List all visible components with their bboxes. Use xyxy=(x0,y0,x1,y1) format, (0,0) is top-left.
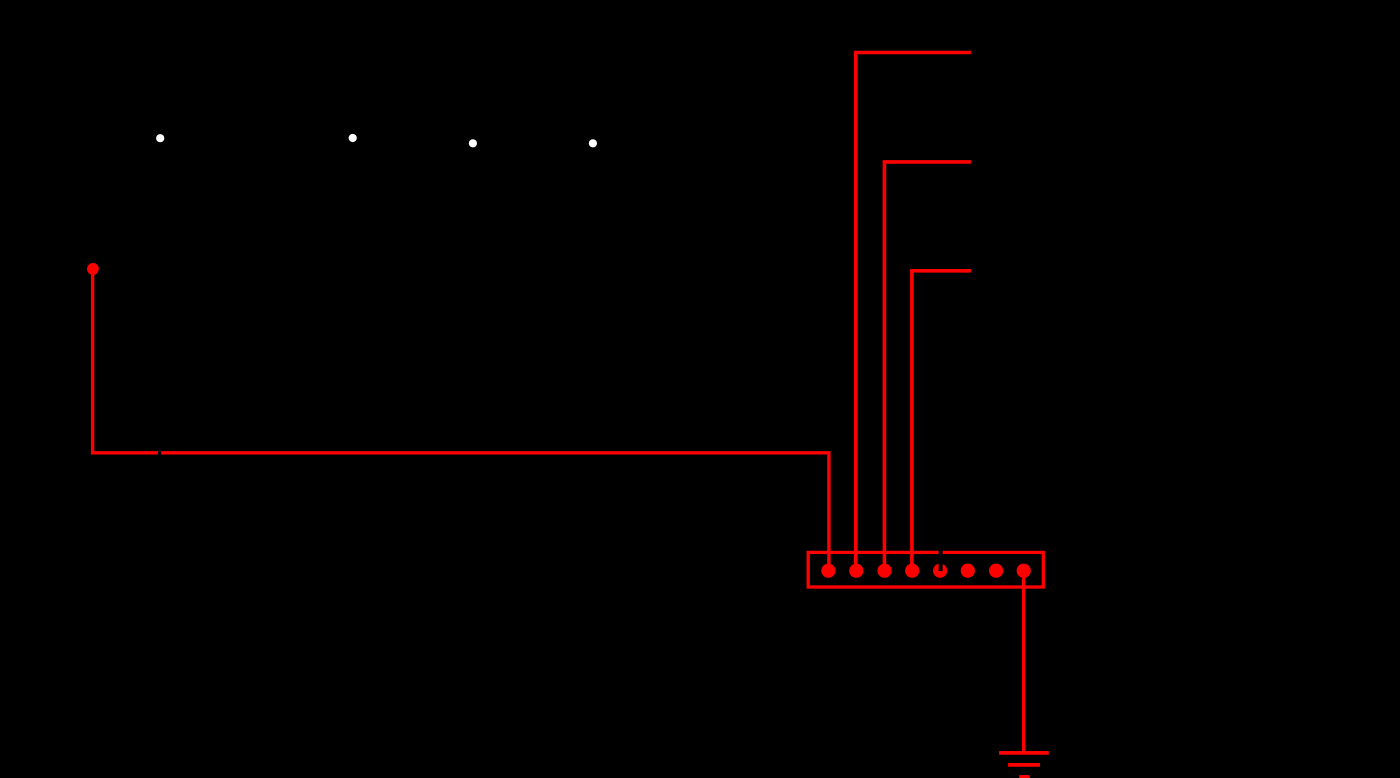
wire W3 (net to connector pin 3) xyxy=(884,162,971,571)
connector J1 (8-pin header outline) xyxy=(808,552,1043,587)
connector J1 pin 4 xyxy=(905,564,919,578)
ground GND (bar 2) xyxy=(1008,763,1040,767)
pin P1 (unconnected component pin) xyxy=(156,134,164,142)
wire W1 (net to connector pin 1) xyxy=(93,269,829,571)
wire W4 (net to connector pin 4) xyxy=(912,271,971,571)
wire W2 (net to connector pin 2) xyxy=(856,53,971,571)
ground GND (bar 1) xyxy=(999,751,1049,755)
connector J1 pin 6 xyxy=(961,564,975,578)
connector J1 pin 5 xyxy=(933,564,947,578)
node A (red wire junction dot) xyxy=(87,263,99,275)
wire W6 (black wire crossing over W1 at node x=159.5) xyxy=(158,444,161,461)
connector J1 pin 2 xyxy=(849,564,863,578)
ground GND (bar 3) xyxy=(1019,775,1030,778)
connector J1 pin 8 xyxy=(1017,564,1031,578)
wire W5 (connector pin 8 to ground) xyxy=(1022,571,1025,753)
pin P4 (unconnected component pin) xyxy=(589,139,597,147)
connector J1 pin 7 xyxy=(989,564,1003,578)
connector J1 pin 3 xyxy=(878,564,892,578)
wire W7 (black wire into connector J1 pin 5) xyxy=(939,542,943,571)
connector J1 pin 1 xyxy=(821,564,835,578)
pin P3 (unconnected component pin) xyxy=(469,139,477,147)
pin P2 (unconnected component pin) xyxy=(349,134,357,142)
